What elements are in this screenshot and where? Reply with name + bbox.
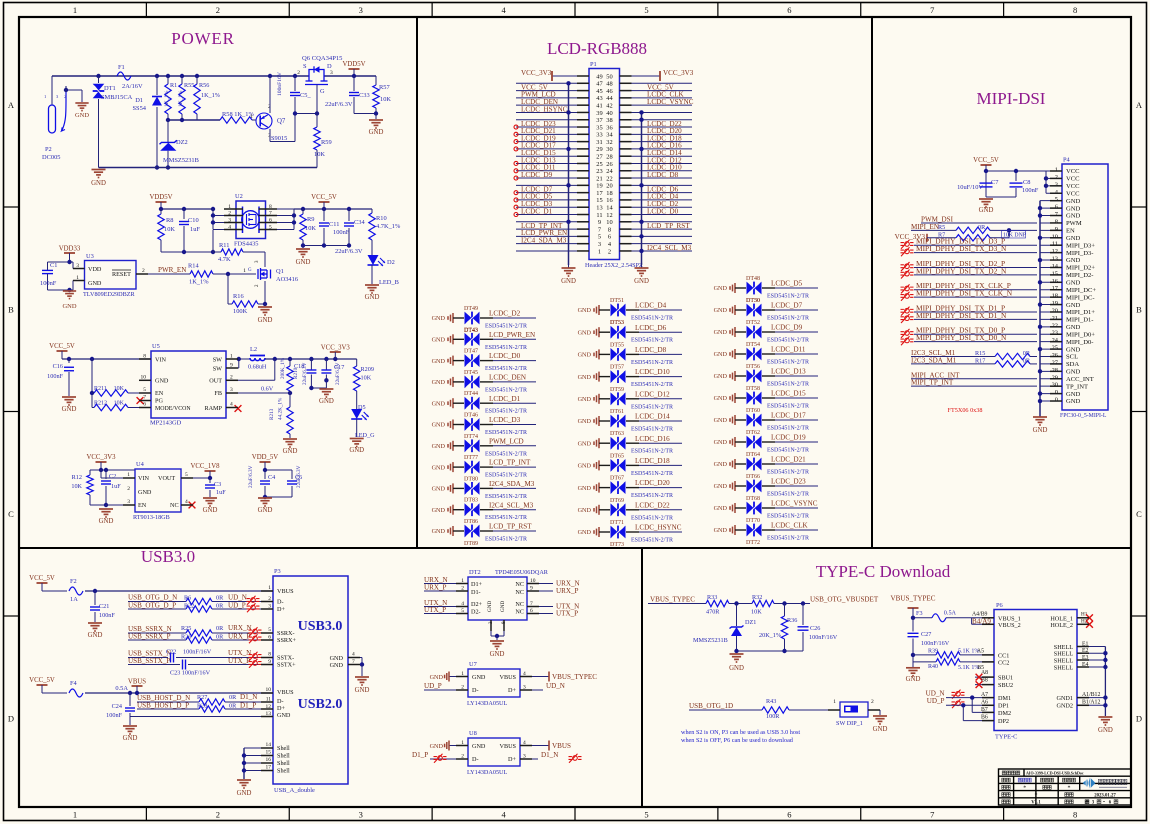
P1 no-connect circles: [514, 125, 518, 129]
svg-text:MIPI_DPHY_DSI_TX_D0_N: MIPI_DPHY_DSI_TX_D0_N: [916, 333, 1007, 342]
svg-text:13: 13: [596, 205, 602, 212]
svg-text:VBUS: VBUS: [552, 742, 571, 750]
svg-text:MIPI_DC-: MIPI_DC-: [1066, 294, 1095, 301]
svg-text:34: 34: [606, 132, 613, 139]
svg-text:D-: D-: [277, 698, 284, 705]
svg-text:GND: GND: [578, 507, 592, 514]
svg-text:C24: C24: [112, 703, 122, 710]
svg-text:15: 15: [1052, 270, 1058, 277]
svg-text:LCDC_D5: LCDC_D5: [771, 280, 803, 288]
svg-text:100nF16V: 100nF16V: [277, 72, 283, 96]
svg-text:19: 19: [1052, 300, 1058, 307]
svg-text:SW DIP_1: SW DIP_1: [836, 720, 863, 727]
svg-text:VBUS: VBUS: [128, 679, 146, 686]
svg-text:VCC_3V3: VCC_3V3: [321, 345, 351, 352]
capacitor C21 100nF: [94, 591, 96, 605]
svg-text:GND: GND: [714, 439, 728, 446]
svg-text:ESD5451N-2/TR: ESD5451N-2/TR: [767, 294, 809, 300]
svg-text:GND: GND: [714, 285, 728, 292]
svg-text:USB2.0: USB2.0: [298, 697, 343, 712]
svg-text:DT64: DT64: [746, 452, 760, 458]
svg-text:17: 17: [1052, 285, 1059, 292]
ESD diode DT77 net LCD_TP_INT: [432, 455, 536, 479]
svg-text:DT60: DT60: [746, 408, 760, 414]
svg-text:GND: GND: [1066, 369, 1081, 376]
svg-text:GND: GND: [714, 373, 728, 380]
ESD diode DT70 net LCDC_CLK: [714, 518, 818, 546]
svg-text:UTX_P: UTX_P: [228, 657, 250, 665]
ESD diode DT51 net LCDC_D4: [578, 298, 682, 326]
svg-text:GND: GND: [369, 129, 384, 136]
svg-text:U4: U4: [136, 461, 145, 468]
svg-text:LCDC_D1: LCDC_D1: [489, 395, 521, 403]
svg-text:SW: SW: [213, 357, 222, 364]
VCC_3V3 power bar u5: [330, 351, 341, 353]
ESD diode DT67 net LCDC_D20: [578, 476, 682, 500]
svg-text:DT47: DT47: [464, 349, 478, 355]
svg-text:30: 30: [606, 146, 612, 153]
svg-text:4.7K: 4.7K: [218, 256, 231, 263]
svg-text:GND: GND: [349, 447, 364, 454]
svg-text:R5: R5: [938, 224, 945, 231]
svg-text:MIPI_D3+: MIPI_D3+: [1066, 242, 1095, 249]
svg-text:2: 2: [297, 70, 300, 76]
svg-text:20K_1%: 20K_1%: [759, 632, 781, 639]
svg-text:Shell: Shell: [277, 753, 290, 760]
svg-text:C10: C10: [188, 217, 199, 224]
svg-text:LY143DA05UL: LY143DA05UL: [467, 700, 508, 707]
svg-text:GND: GND: [99, 518, 114, 525]
title block table: [999, 769, 1132, 805]
svg-text:10K: 10K: [751, 609, 762, 616]
svg-text:ESD5451N-2/TR: ESD5451N-2/TR: [485, 324, 527, 330]
P6 pin a4 wires: [972, 617, 993, 619]
resistor R9 10K: [302, 209, 304, 214]
svg-text:SMBJ15CA: SMBJ15CA: [101, 94, 133, 101]
svg-text:D-: D-: [472, 687, 479, 694]
svg-text:GND: GND: [432, 507, 446, 514]
ESD diode DT80 net I2C4_SDA_M3: [432, 476, 536, 500]
VCC_5V power bar usb: [37, 582, 48, 584]
svg-text:GND: GND: [578, 529, 592, 536]
svg-text:DT73: DT73: [610, 542, 624, 548]
svg-text:SW: SW: [213, 366, 222, 373]
resistor R56 1K_1%: [195, 74, 199, 78]
svg-text:GND: GND: [714, 483, 728, 490]
svg-text:ESD5451N-2/TR: ESD5451N-2/TR: [767, 536, 809, 542]
svg-text:D1_P: D1_P: [240, 702, 256, 710]
svg-text:C21: C21: [99, 603, 109, 610]
S2 pin leads: [828, 709, 840, 711]
svg-text:5: 5: [185, 472, 188, 478]
ESD diode DT66 net LCDC_D23: [714, 474, 818, 498]
svg-text:C11: C11: [329, 221, 339, 228]
svg-text:MMSZ5231B: MMSZ5231B: [693, 637, 728, 644]
svg-text:R1: R1: [170, 82, 177, 89]
svg-text:2: 2: [127, 486, 130, 492]
FB divider: [226, 392, 290, 394]
svg-text:C23 100nF/16V: C23 100nF/16V: [170, 670, 211, 677]
r16 gnd: [264, 304, 266, 306]
svg-text:R59: R59: [321, 139, 332, 146]
svg-text:LCDC_CLK: LCDC_CLK: [771, 522, 809, 530]
svg-text:R12: R12: [72, 474, 82, 481]
svg-text:38: 38: [606, 117, 612, 124]
svg-text:MIPI_EN: MIPI_EN: [911, 223, 939, 231]
ESD diode DT44 net LCDC_D1: [432, 391, 536, 415]
svg-text:100K: 100K: [233, 308, 248, 315]
svg-text:VDD5V: VDD5V: [342, 61, 365, 68]
svg-text:36: 36: [606, 124, 612, 131]
svg-text:DT77: DT77: [464, 455, 478, 461]
svg-text:0R: 0R: [1023, 357, 1031, 364]
svg-text:10: 10: [1052, 233, 1058, 240]
frame row ticks and letters: [4, 206, 20, 208]
svg-text:GND: GND: [1066, 391, 1081, 398]
svg-text:UD_P: UD_P: [228, 602, 246, 610]
svg-text:GND: GND: [1066, 324, 1081, 331]
resistor R1 1K_1%: [166, 74, 170, 78]
svg-text:UD_P: UD_P: [927, 697, 945, 705]
svg-text:OUT: OUT: [209, 378, 222, 385]
svg-text:LCD_TP_RST: LCD_TP_RST: [489, 523, 532, 531]
svg-text:35: 35: [596, 124, 602, 131]
diode D1 SS54: [155, 74, 159, 78]
typec det gnd rail: [737, 650, 804, 652]
svg-text:8: 8: [1073, 810, 1077, 820]
svg-text:R8: R8: [166, 217, 173, 224]
svg-text:FPC30-0_5-MIPI-L: FPC30-0_5-MIPI-L: [1060, 413, 1107, 419]
svg-text:R39: R39: [928, 649, 938, 655]
ESD diode DT74 net PWM_LCD: [432, 434, 536, 458]
VCC_5V power bar u2: [319, 201, 330, 203]
svg-text:D+: D+: [277, 705, 285, 712]
svg-text:DT50: DT50: [746, 298, 760, 304]
P1 left gnd bus wire: [568, 83, 570, 265]
svg-text:ESD5451N-2/TR: ESD5451N-2/TR: [767, 492, 809, 498]
svg-text:NC: NC: [515, 601, 524, 608]
svg-text:AIO-3399-LCD-DSI-USB.SchDoc: AIO-3399-LCD-DSI-USB.SchDoc: [1026, 770, 1084, 775]
svg-text:R6: R6: [184, 595, 191, 602]
svg-text:GND: GND: [634, 278, 649, 285]
connector P3 box USB_A_double: [273, 576, 348, 784]
resistor R209 10K: [356, 359, 358, 366]
svg-text:LCDC_D3: LCDC_D3: [489, 416, 521, 424]
svg-text:VIN: VIN: [138, 475, 150, 482]
svg-text:VDD: VDD: [88, 266, 102, 273]
svg-text:GND: GND: [714, 395, 728, 402]
svg-text:SHELL: SHELL: [1054, 664, 1073, 671]
svg-text:SSTX+: SSTX+: [277, 662, 296, 669]
svg-text:VBUS: VBUS: [499, 743, 516, 750]
svg-text:D+: D+: [508, 687, 516, 694]
svg-text:GND: GND: [1098, 727, 1113, 734]
svg-text:C: C: [8, 509, 14, 519]
mosfet Q6 CQA34P15: [309, 70, 324, 77]
svg-text:LCDC_D2: LCDC_D2: [489, 310, 521, 318]
svg-text:10K: 10K: [164, 226, 175, 233]
svg-text:6: 6: [1055, 204, 1058, 211]
U5 pin leads: [139, 358, 151, 360]
svg-text:VBUS_TYPEC: VBUS_TYPEC: [552, 673, 597, 681]
svg-text:D1: D1: [135, 97, 143, 104]
svg-text:15: 15: [266, 750, 272, 756]
svg-text:GND: GND: [729, 665, 744, 672]
svg-text:22: 22: [606, 175, 612, 182]
svg-text:GND: GND: [283, 448, 298, 455]
svg-text:15: 15: [596, 197, 602, 204]
svg-text:DT43: DT43: [464, 327, 478, 333]
svg-text:DT2: DT2: [469, 569, 481, 576]
resistor R10 4.7K_1%: [371, 209, 373, 213]
svg-text:PWR_EN: PWR_EN: [158, 266, 186, 274]
svg-text:1uF: 1uF: [190, 226, 200, 233]
svg-text:GND: GND: [155, 378, 169, 385]
fuse F3 0.5A: [913, 617, 932, 619]
svg-text:GND: GND: [490, 651, 505, 658]
rail u2bottom to r11: [161, 251, 213, 253]
svg-text:0.5A: 0.5A: [944, 610, 957, 617]
svg-text:GND: GND: [432, 358, 446, 365]
svg-text:ESD5451N-2/TR: ESD5451N-2/TR: [767, 360, 809, 366]
svg-text:17: 17: [596, 190, 603, 197]
svg-text:C8: C8: [1023, 179, 1030, 186]
svg-text:GND: GND: [1066, 280, 1081, 287]
bottom gnd rail: [99, 167, 318, 169]
section divider horizontal: [19, 547, 1131, 549]
u2 gnd rail: [303, 245, 349, 247]
svg-text:D2+: D2+: [471, 601, 483, 608]
svg-text:A: A: [8, 100, 15, 110]
svg-text:EN: EN: [155, 390, 164, 397]
svg-text:3: 3: [1055, 181, 1058, 188]
svg-text:V1.1: V1.1: [1031, 801, 1041, 806]
ESD diode DT58 net LCDC_D15: [714, 386, 818, 410]
svg-text:GND: GND: [714, 505, 728, 512]
svg-text:ESD5451N-2/TR: ESD5451N-2/TR: [631, 427, 673, 433]
svg-text:GND: GND: [578, 352, 592, 359]
P4 vcc mini bus: [1045, 171, 1047, 193]
svg-text:GND2: GND2: [1057, 703, 1074, 710]
VDD5V power bar u2: [156, 201, 167, 203]
svg-text:U3: U3: [86, 253, 94, 260]
svg-text:DT70: DT70: [746, 518, 760, 524]
svg-text:44: 44: [606, 95, 613, 102]
P2 gnd branch: [66, 89, 82, 91]
svg-text:LCD_PWR_EN: LCD_PWR_EN: [489, 331, 535, 339]
svg-text:LCDC_D0: LCDC_D0: [647, 207, 679, 215]
wire vcc to P4 pin1: [986, 170, 1046, 172]
U5 EN PG wires R211 R212: [91, 359, 93, 408]
svg-text:DT74: DT74: [464, 434, 478, 440]
svg-text:100nF: 100nF: [47, 373, 63, 380]
svg-text:DC005: DC005: [42, 154, 60, 161]
svg-text:C1: C1: [50, 262, 57, 269]
svg-text:EN: EN: [138, 502, 147, 509]
svg-text:LCDC_D9: LCDC_D9: [521, 171, 553, 179]
svg-text:LCD_TP_INT: LCD_TP_INT: [489, 459, 531, 467]
svg-text:1: 1: [250, 114, 253, 120]
DT2 pin leads: [456, 583, 468, 585]
svg-text:LCDC_D8: LCDC_D8: [635, 346, 667, 354]
svg-text:MIPI_DPHY_DSI_TX_D2_N: MIPI_DPHY_DSI_TX_D2_N: [916, 266, 1007, 275]
svg-text:100nF: 100nF: [99, 612, 115, 619]
svg-text:DT56: DT56: [746, 364, 760, 370]
svg-text:F4: F4: [70, 680, 78, 687]
svg-text:DT59: DT59: [610, 387, 624, 393]
svg-text:16: 16: [606, 197, 612, 204]
svg-text:USB_HOST_D_P: USB_HOST_D_P: [137, 702, 189, 710]
P6 hole pins: [1077, 617, 1088, 619]
svg-text:0R: 0R: [978, 224, 986, 231]
svg-text:I2C4_SCL_M3: I2C4_SCL_M3: [489, 501, 534, 509]
svg-text:D1_P: D1_P: [412, 751, 428, 759]
svg-text:R213: R213: [269, 408, 275, 420]
resistor R33 470R: [706, 600, 729, 606]
svg-text:5.1K 1%: 5.1K 1%: [958, 665, 979, 671]
svg-text:P1: P1: [590, 61, 597, 68]
svg-text:ACC_INT: ACC_INT: [1066, 376, 1094, 383]
svg-text:GND: GND: [432, 315, 446, 322]
svg-text:18: 18: [606, 190, 612, 197]
ESD diode DT83 net I2C4_SCL_M3: [432, 498, 536, 522]
U7 box LY143DA05UL: [468, 669, 520, 697]
resistor R16 100K: [232, 301, 258, 307]
ESD diode DT65 net LCDC_D18: [578, 453, 682, 477]
svg-text:MIPI_D2+: MIPI_D2+: [1066, 265, 1095, 272]
svg-text:GND: GND: [203, 507, 218, 514]
svg-text:0.68uH: 0.68uH: [248, 364, 267, 371]
svg-text:D1-: D1-: [471, 589, 481, 596]
svg-text:VOUT: VOUT: [158, 475, 175, 482]
fuse F4 0.5A: [69, 689, 83, 697]
resistor R32 10K: [752, 600, 774, 606]
svg-text:GND: GND: [75, 112, 89, 119]
svg-text:ESD5451N-2/TR: ESD5451N-2/TR: [631, 538, 673, 544]
ESD diode DT53 net LCDC_D6: [578, 320, 682, 344]
capacitor C5 100nF16V: [293, 74, 297, 78]
svg-text:44.2K_1%: 44.2K_1%: [278, 397, 284, 420]
Q6 gate wire: [316, 85, 318, 114]
svg-text:HOLE_2: HOLE_2: [1050, 622, 1073, 629]
svg-text:VCC: VCC: [1066, 190, 1080, 197]
svg-text:S: S: [303, 63, 307, 70]
svg-text:PWM_LCD: PWM_LCD: [489, 437, 524, 445]
svg-text:100nF: 100nF: [106, 712, 122, 719]
svg-text:VBUS: VBUS: [277, 689, 294, 696]
svg-text:URX_P: URX_P: [424, 584, 447, 592]
U5 box MP2143GD: [151, 351, 226, 418]
svg-text:GND: GND: [330, 662, 344, 669]
svg-text:S9015: S9015: [271, 135, 287, 142]
svg-text:GND: GND: [237, 790, 252, 797]
svg-text:ESD5451N-2/TR: ESD5451N-2/TR: [767, 514, 809, 520]
svg-text:POWER: POWER: [171, 29, 235, 48]
svg-text:ESD5451N-2/TR: ESD5451N-2/TR: [767, 404, 809, 410]
svg-text:0.6V: 0.6V: [261, 386, 274, 393]
svg-text:CC1: CC1: [998, 652, 1009, 659]
svg-text:DT67: DT67: [610, 476, 624, 482]
ESD diode DT49 net LCDC_D2: [432, 306, 536, 334]
svg-text:7: 7: [930, 5, 934, 15]
svg-text:VBUS_TYPEC: VBUS_TYPEC: [650, 596, 695, 604]
capacitor C11 100nF: [323, 209, 325, 221]
P6 shell pins wires: [1077, 646, 1105, 648]
Q7 emitter wire: [269, 129, 271, 142]
svg-text:VIN: VIN: [155, 357, 167, 364]
P1 right bus junctions: [639, 110, 643, 114]
svg-text:DM1: DM1: [998, 695, 1011, 702]
svg-text:VCC: VCC: [1066, 183, 1080, 190]
svg-text:R11: R11: [219, 242, 229, 249]
svg-text:DT72: DT72: [746, 540, 760, 546]
usb2 gnd pin13: [130, 716, 273, 718]
svg-text:I2C3_SDA_M1: I2C3_SDA_M1: [911, 356, 957, 364]
svg-text:EN: EN: [1066, 228, 1075, 235]
svg-text:100nF: 100nF: [333, 229, 350, 236]
svg-text:U5: U5: [152, 343, 160, 350]
P3 pin leads: [261, 590, 273, 592]
svg-text:USB_OTG_D_P: USB_OTG_D_P: [128, 602, 176, 610]
VCC_5V power bar usb2: [37, 684, 48, 686]
u5 vin rail: [62, 358, 151, 360]
svg-text:P6: P6: [996, 602, 1003, 609]
P6 gnd pins: [1077, 697, 1105, 699]
svg-text:NC: NC: [170, 502, 179, 509]
VCC_5V power bar mipi: [981, 164, 992, 166]
svg-text:16: 16: [266, 757, 272, 763]
svg-text:C3: C3: [214, 481, 221, 488]
svg-text:F1: F1: [118, 64, 125, 71]
svg-text:3: 3: [359, 810, 363, 820]
svg-text:2: 2: [608, 248, 611, 255]
svg-text:D5: D5: [358, 404, 366, 411]
svg-text:VDD_5V: VDD_5V: [252, 454, 279, 461]
svg-text:17: 17: [266, 765, 272, 771]
TVS diode DT1 SMBJ15CA: [96, 74, 100, 78]
svg-text:46: 46: [606, 88, 612, 95]
ESD diode DT54 net LCDC_D11: [714, 342, 818, 366]
svg-text:ESD5451N-2/TR: ESD5451N-2/TR: [485, 430, 527, 436]
svg-text:LCDC_D20: LCDC_D20: [635, 479, 670, 487]
svg-text:VCC_3V3: VCC_3V3: [521, 69, 552, 77]
svg-text:R212: R212: [94, 401, 107, 407]
svg-text:LCDC_VSYNC: LCDC_VSYNC: [771, 500, 818, 508]
svg-text:ESD5451N-2/TR: ESD5451N-2/TR: [485, 537, 527, 543]
ESD diode DT63 net LCDC_D16: [578, 431, 682, 455]
svg-text:LCD-RGB888: LCD-RGB888: [547, 39, 647, 58]
svg-text:6: 6: [787, 810, 791, 820]
svg-text:3: 3: [359, 5, 363, 15]
svg-text:D: D: [1136, 713, 1142, 723]
ESD diode DT62 net LCDC_D19: [714, 430, 818, 454]
svg-text:URX_P: URX_P: [556, 587, 579, 595]
svg-text:10K: 10K: [71, 483, 82, 490]
svg-text:GND: GND: [578, 307, 592, 314]
svg-text:1A: 1A: [70, 596, 78, 603]
svg-text:22uF/6.3V: 22uF/6.3V: [335, 248, 363, 255]
svg-text:LCDC_D14: LCDC_D14: [635, 413, 670, 421]
svg-text:Shell: Shell: [277, 760, 290, 767]
svg-text:TYPE-C Download: TYPE-C Download: [816, 562, 951, 581]
svg-text:GND: GND: [1066, 213, 1081, 220]
svg-text:D2-: D2-: [471, 609, 481, 616]
svg-text:I2C4_SDA_M3: I2C4_SDA_M3: [489, 480, 535, 488]
svg-text:3: 3: [330, 70, 333, 76]
svg-text:MIPI_DPHY_DSI_TX_D3_N: MIPI_DPHY_DSI_TX_D3_N: [916, 244, 1007, 253]
svg-text:Q7: Q7: [277, 118, 286, 125]
svg-text:MMSZ5231B: MMSZ5231B: [163, 157, 199, 164]
